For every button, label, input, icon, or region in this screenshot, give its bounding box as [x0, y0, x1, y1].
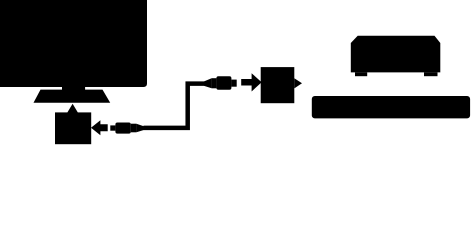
arrow left (plug to box) — [91, 120, 108, 135]
converter box — [261, 67, 295, 103]
set-top box — [55, 112, 91, 144]
AV receiver body — [351, 36, 441, 73]
TV stand base — [34, 90, 111, 103]
cable plug left tip — [110, 125, 115, 130]
cable plug left strain relief — [136, 124, 143, 133]
AV receiver right foot — [424, 72, 438, 76]
TV screen — [0, 0, 147, 87]
cable plug left collar — [131, 124, 137, 133]
wire — [144, 84, 205, 128]
arrow right (plug to converter) — [241, 73, 261, 91]
cable plug right strain relief — [204, 78, 212, 88]
cable plug right collar — [212, 78, 217, 88]
cable plug right tip — [231, 80, 236, 87]
soundbar — [312, 96, 470, 118]
converter output triangle — [294, 78, 302, 88]
TV stand neck — [62, 86, 85, 91]
AV receiver left foot — [355, 72, 367, 76]
cable plug left body — [115, 123, 130, 134]
arrow up (box to TV) — [67, 104, 78, 113]
cable plug right body — [216, 76, 231, 90]
